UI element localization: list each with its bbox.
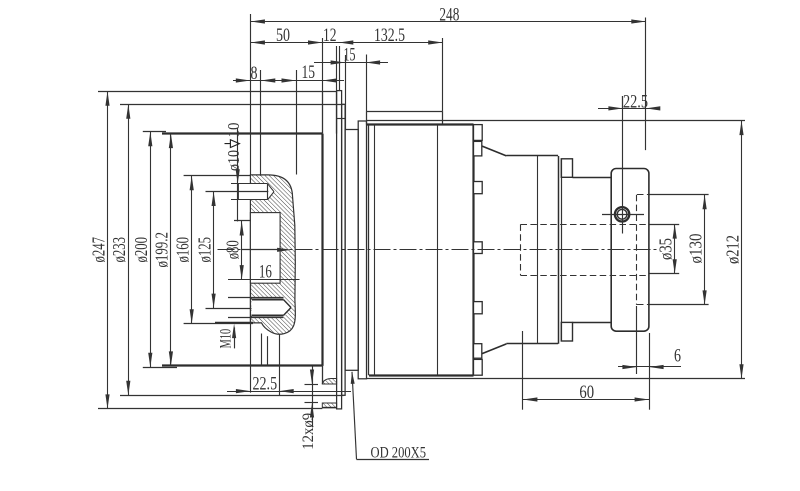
svg-text:OD 200X5: OD 200X5 (371, 445, 427, 462)
svg-text:8: 8 (251, 63, 258, 84)
svg-text:ø200: ø200 (131, 237, 151, 262)
svg-text:ø125: ø125 (194, 237, 214, 262)
svg-text:12xø9: 12xø9 (300, 413, 317, 450)
svg-text:ø35: ø35 (656, 238, 676, 260)
svg-text:ø10: ø10 (224, 150, 243, 171)
svg-text:ø233: ø233 (109, 237, 129, 263)
svg-text:ø247: ø247 (88, 237, 108, 262)
svg-text:ø160: ø160 (173, 237, 193, 262)
svg-text:50: 50 (276, 25, 290, 46)
svg-text:22.5: 22.5 (623, 91, 648, 112)
svg-text:6: 6 (674, 346, 681, 367)
svg-text:12: 12 (323, 25, 337, 46)
svg-text:60: 60 (579, 382, 594, 403)
svg-text:22.5: 22.5 (253, 374, 278, 395)
svg-text:15: 15 (301, 62, 315, 83)
svg-text:10: 10 (224, 123, 243, 138)
svg-text:M10: M10 (217, 329, 234, 349)
svg-text:ø212: ø212 (722, 235, 742, 264)
svg-text:248: 248 (439, 4, 459, 25)
svg-text:ø199.2: ø199.2 (152, 232, 172, 267)
svg-text:ø130: ø130 (685, 234, 705, 264)
svg-text:ø80: ø80 (223, 240, 243, 259)
svg-text:132.5: 132.5 (374, 25, 405, 46)
